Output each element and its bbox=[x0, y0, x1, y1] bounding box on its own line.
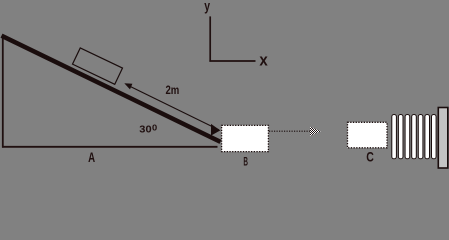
svg-text:A: A bbox=[88, 149, 95, 165]
svg-text:B: B bbox=[243, 155, 248, 169]
svg-text:2m: 2m bbox=[166, 83, 180, 97]
svg-text:0: 0 bbox=[152, 122, 157, 132]
svg-text:x: x bbox=[259, 51, 268, 70]
svg-text:30: 30 bbox=[139, 124, 151, 136]
svg-text:y: y bbox=[204, 0, 210, 14]
svg-text:C: C bbox=[366, 149, 374, 165]
